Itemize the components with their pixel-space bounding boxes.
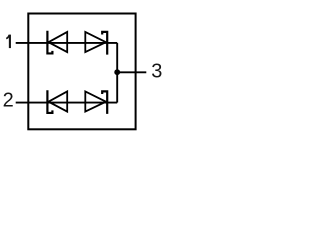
diode D2 triangle (row1 right) bbox=[85, 32, 106, 52]
diode D1 triangle bbox=[49, 32, 68, 52]
wire pin2 row bbox=[16, 102, 118, 104]
svg-text:3: 3 bbox=[151, 61, 162, 83]
wire right vertical connector bbox=[116, 43, 118, 103]
package outline box bbox=[28, 14, 135, 130]
diode D2 cathode bar (zener hook) bbox=[102, 32, 107, 55]
pin 1 label (digit drawn as paths, Helvetica-style footless 1) bbox=[6, 35, 10, 49]
wire pin1 row bbox=[16, 42, 118, 44]
node junction dot bbox=[114, 69, 120, 75]
diode D1 cathode bar (zener hook, row1 left) bbox=[47, 31, 52, 54]
diode D4 triangle (row2 right) bbox=[85, 91, 106, 111]
diode D3 triangle bbox=[49, 91, 68, 111]
diode D3 cathode bar (zener hook, row2 left) bbox=[47, 90, 52, 113]
diode D4 cathode bar (zener hook) bbox=[102, 91, 107, 114]
wire pin3 bbox=[117, 71, 146, 73]
svg-text:2: 2 bbox=[3, 90, 14, 112]
